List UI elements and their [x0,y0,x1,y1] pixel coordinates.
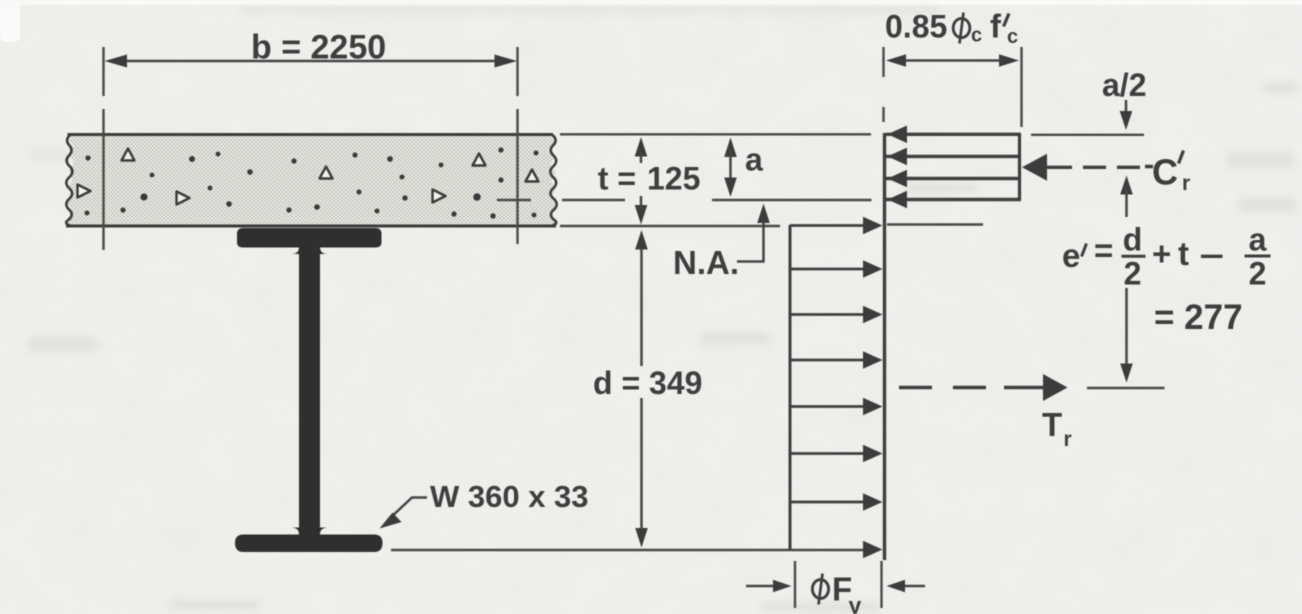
e' dimension top arrow [1120,176,1133,195]
e' reference line [1087,387,1165,390]
0.85 dimension left extension line [882,47,884,122]
compression block right edge [1018,133,1021,201]
svg-text:b = 2250: b = 2250 [251,29,386,67]
steel bottom reference line [391,549,866,552]
compression block line 3 [886,177,1021,180]
svg-text:N.A.: N.A. [673,244,739,281]
svg-text:2: 2 [1249,256,1267,292]
svg-text:t =: t = [598,161,636,197]
W label leader arrow [388,498,427,521]
aggregate dots [85,147,539,218]
d dimension top arrowhead [635,230,648,250]
a/2 reference line [1031,134,1144,136]
compression arrowhead 1 [888,126,908,144]
e' dimension bottom arrow [1125,288,1128,367]
svg-text:r: r [1064,428,1072,451]
svg-text:a: a [745,142,763,178]
tension arrow 2 [790,268,866,271]
t=125 dimension up arrow [635,137,648,157]
white scan margin top-left [0,0,1302,42]
svg-text:125: 125 [647,161,700,197]
dimension b right arrowhead [495,55,518,68]
phi Fy right extension line [880,561,882,608]
phi Fy right arrow [903,585,925,588]
phi Fy left extension line [794,561,796,608]
concrete slab top edge [68,133,554,136]
svg-text:f: f [990,8,1002,45]
steel beam W360x33 cross-section [235,228,383,552]
svg-text:t: t [1178,235,1189,272]
Tr dashed force arrow [899,386,1045,389]
svg-text:+: + [1152,235,1171,272]
svg-text:=: = [1094,232,1113,269]
t=125 dimension down arrow [635,205,648,225]
svg-text:0.85: 0.85 [885,9,947,45]
concrete slab bottom edge [66,225,556,228]
tension arrow 3 [790,313,866,316]
svg-text:e: e [1062,237,1080,274]
svg-text:c: c [971,25,982,47]
dimension b=2250 line [122,60,498,63]
main stress axis vertical line [883,133,886,560]
phi Fy left arrow [746,585,778,588]
neutral axis line N.A. [497,199,872,202]
svg-text:2: 2 [1124,256,1142,292]
tension block left edge [789,225,792,549]
svg-text:c: c [1007,26,1018,48]
dimension b=2250 right extension line [516,47,518,244]
dimension b=2250 left extension line [102,47,104,250]
0.85 dimension right extension line [1020,47,1022,127]
compression block top line [886,133,1021,136]
tension arrow 4 [790,359,866,362]
a dimension double arrow [724,138,737,158]
d dimension bottom arrowhead [635,528,648,548]
svg-text:y: y [849,593,862,614]
compression arrowhead 2 [888,148,908,166]
a/2 down arrow [1125,100,1128,114]
0.85 dimension double arrow [902,59,1003,62]
svg-text:a/2: a/2 [1102,67,1146,103]
concrete slab right torn edge [550,135,556,226]
compression arrowhead 4 [888,191,908,209]
slab top extension line to stress diagram [560,133,871,135]
label phi Fy [812,574,828,605]
d=349 dimension line [640,243,643,534]
svg-text:C: C [1152,152,1178,193]
svg-text:a: a [1249,222,1267,258]
tension arrow 7 [790,501,866,504]
compression block bottom line [886,198,1021,201]
aggregate triangles [78,149,539,205]
svg-text:W 360 x 33: W 360 x 33 [430,479,589,514]
tension arrow 1 [790,224,866,227]
svg-text:= 277: = 277 [1154,298,1243,337]
svg-text:r: r [1182,172,1190,195]
svg-text:T: T [1042,406,1062,443]
svg-text:d: d [1123,222,1143,258]
concrete slab fill [67,135,556,227]
tension arrow 8 on bottom line [863,541,883,559]
tension arrow 6 [790,452,866,455]
compression block line 2 [886,155,1021,158]
dimension b left arrowhead [105,55,128,68]
slab bottom extension line [560,225,780,228]
N.A. leader arrow [737,219,764,262]
C'r dashed force arrow [1022,154,1047,181]
svg-text:d = 349: d = 349 [593,365,702,401]
compression arrowhead 3 [888,170,908,188]
concrete slab left torn edge [66,135,72,226]
tension arrow 5 [790,405,866,408]
